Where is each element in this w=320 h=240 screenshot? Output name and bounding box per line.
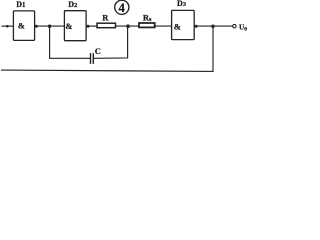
svg-text:C: C	[95, 46, 101, 56]
svg-text:4: 4	[119, 1, 126, 15]
svg-text:&: &	[65, 21, 72, 31]
svg-text:D3: D3	[177, 0, 187, 8]
svg-text:&: &	[18, 21, 25, 31]
svg-text:D2: D2	[68, 0, 77, 9]
svg-text:&: &	[174, 21, 181, 31]
svg-text:D1: D1	[16, 0, 26, 9]
svg-text:R: R	[102, 13, 109, 23]
